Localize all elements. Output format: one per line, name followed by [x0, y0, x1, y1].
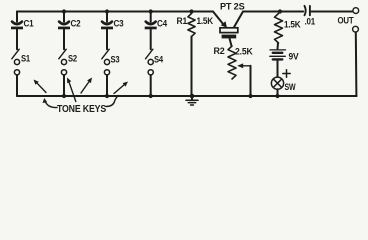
ground: [186, 94, 198, 105]
arrow to S2: [68, 80, 75, 101]
wire bottom ground rail: [17, 95, 357, 97]
svg-text:1.5K: 1.5K: [284, 20, 301, 30]
svg-text:S4: S4: [154, 55, 163, 65]
arrow to S4: [114, 84, 126, 94]
switch S3: [102, 49, 110, 98]
resistor R1 1.5K: [188, 9, 195, 96]
capacitor C4: [145, 9, 157, 49]
switch S2: [59, 49, 67, 98]
svg-text:SW: SW: [285, 82, 297, 92]
battery 9V: [270, 50, 286, 77]
svg-text:.01: .01: [305, 16, 316, 26]
svg-text:C3: C3: [114, 19, 124, 29]
wire top rail middle segment (collector to .01 cap): [243, 11, 303, 13]
terminal OUT top: [353, 8, 359, 14]
switch S1: [12, 49, 20, 96]
svg-text:C4: C4: [157, 19, 167, 29]
svg-text:1.5K: 1.5K: [197, 16, 214, 26]
svg-text:R1: R1: [177, 16, 188, 26]
capacitor .01: [305, 6, 310, 15]
capacitor C1: [11, 12, 23, 50]
svg-text:9V: 9V: [289, 51, 299, 61]
terminal OUT bottom: [353, 26, 359, 32]
svg-text:R2: R2: [214, 46, 225, 56]
svg-text:S3: S3: [111, 55, 120, 65]
switch S4: [146, 49, 154, 98]
transistor PT 2S: [213, 12, 243, 47]
svg-text:S1: S1: [21, 54, 30, 64]
svg-text:C2: C2: [71, 19, 81, 29]
tone keys leader right: [106, 96, 119, 107]
svg-text:TONE KEYS: TONE KEYS: [57, 104, 107, 115]
lamp / switch SW: [271, 77, 283, 98]
wire top rail left segment: [17, 11, 213, 13]
wire top rail right segment (.01 cap to OUT): [312, 11, 353, 13]
arrow to S1: [36, 82, 46, 93]
wire right edge down: [355, 32, 358, 96]
choke/resistor 1.5K (right): [275, 9, 283, 48]
tone keys leader left: [45, 101, 57, 108]
capacitor C2: [58, 9, 70, 49]
capacitor C3: [101, 9, 113, 49]
plus sign: [283, 70, 290, 77]
svg-text:PT 2S: PT 2S: [220, 1, 245, 11]
svg-text:OUT: OUT: [338, 15, 355, 25]
svg-text:C1: C1: [24, 19, 34, 29]
arrow to S3: [81, 80, 90, 93]
potentiometer R2 2.5K: [228, 46, 253, 98]
svg-text:2.5K: 2.5K: [235, 47, 253, 57]
svg-text:S2: S2: [68, 54, 77, 64]
